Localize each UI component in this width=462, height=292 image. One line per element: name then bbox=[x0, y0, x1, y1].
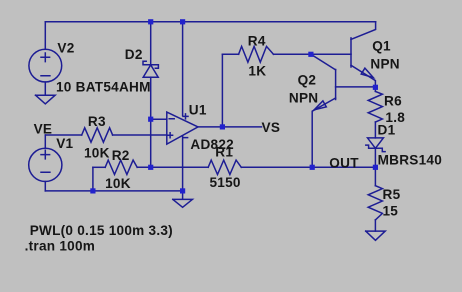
wire R4 to Q1 base bbox=[274, 53, 352, 55]
wire R2 drop bbox=[92, 167, 94, 191]
diode D2 bbox=[143, 65, 158, 77]
resistor R1 bbox=[208, 160, 241, 174]
ground below V2 bbox=[36, 95, 56, 104]
svg-text:U1: U1 bbox=[189, 103, 207, 118]
wire V2 bottom lead bbox=[44, 82, 46, 95]
wire op-amp V- to ground bbox=[182, 136, 184, 199]
svg-text:R5: R5 bbox=[383, 187, 401, 202]
svg-text:10K: 10K bbox=[105, 176, 131, 191]
resistor R5 bbox=[368, 186, 382, 220]
wire D2 branch from rail bbox=[150, 22, 152, 65]
svg-text:NPN: NPN bbox=[289, 91, 318, 106]
wire bottom ground run bbox=[45, 190, 182, 192]
wire R5 top lead bbox=[374, 167, 376, 185]
wire op-amp output bbox=[198, 126, 262, 128]
wire R5 bottom lead bbox=[374, 220, 376, 231]
svg-text:NPN: NPN bbox=[370, 57, 399, 72]
svg-text:D1: D1 bbox=[378, 123, 396, 138]
wire D2 to minus node column bbox=[150, 77, 152, 167]
svg-text:5150: 5150 bbox=[210, 175, 241, 190]
resistor R4 bbox=[239, 46, 274, 62]
wire op-amp minus input bbox=[151, 118, 167, 120]
op-amp U1 bbox=[167, 112, 198, 144]
wire feedback/OUT run bbox=[137, 166, 375, 168]
svg-text:V1: V1 bbox=[56, 136, 73, 151]
svg-text:MBRS140: MBRS140 bbox=[378, 152, 442, 167]
wire R4 branch drop bbox=[221, 54, 223, 127]
svg-text:10K: 10K bbox=[84, 146, 110, 161]
wire V1 top lead bbox=[44, 135, 46, 148]
svg-text:Q2: Q2 bbox=[298, 73, 317, 88]
transistor Q2 bbox=[311, 54, 336, 70]
resistor R2 bbox=[105, 160, 137, 174]
svg-text:R3: R3 bbox=[88, 114, 106, 129]
voltage source V1 bbox=[29, 148, 62, 181]
svg-text:R6: R6 bbox=[384, 94, 402, 109]
svg-text:.tran 100m: .tran 100m bbox=[25, 238, 96, 253]
voltage source V2 bbox=[29, 49, 62, 82]
svg-text:R1: R1 bbox=[215, 145, 233, 160]
wire V1 bottom lead bbox=[44, 182, 46, 191]
resistor R6 bbox=[374, 87, 376, 138]
ground below op-amp bbox=[173, 199, 193, 207]
wire VE / plus input run bbox=[45, 134, 167, 136]
node junction squares bbox=[148, 19, 153, 24]
svg-text:D2: D2 bbox=[125, 47, 143, 62]
wire op-amp V+ supply bbox=[182, 22, 184, 116]
diode D1 bbox=[368, 138, 384, 148]
wire top rail bbox=[45, 21, 375, 23]
svg-text:Q1: Q1 bbox=[372, 38, 391, 53]
wire V2 top lead bbox=[44, 22, 46, 50]
svg-text:VS: VS bbox=[262, 120, 281, 135]
svg-text:OUT: OUT bbox=[329, 156, 359, 171]
svg-text:1K: 1K bbox=[248, 63, 266, 78]
svg-text:R4: R4 bbox=[248, 34, 266, 49]
wire R4 left lead bbox=[222, 53, 238, 55]
svg-text:15: 15 bbox=[383, 203, 399, 218]
svg-text:R2: R2 bbox=[112, 148, 130, 163]
svg-text:VE: VE bbox=[34, 121, 53, 136]
wire D1 to OUT node bbox=[374, 148, 376, 167]
ground below R5 bbox=[366, 231, 386, 240]
svg-text:PWL(0 0.15 100m 3.3): PWL(0 0.15 100m 3.3) bbox=[30, 223, 173, 238]
resistor R3 bbox=[82, 128, 113, 142]
wire R2 left lead bbox=[93, 166, 105, 168]
svg-text:V2: V2 bbox=[57, 41, 74, 56]
svg-text:10 BAT54AHM: 10 BAT54AHM bbox=[56, 80, 151, 95]
transistor Q1 bbox=[350, 38, 352, 67]
